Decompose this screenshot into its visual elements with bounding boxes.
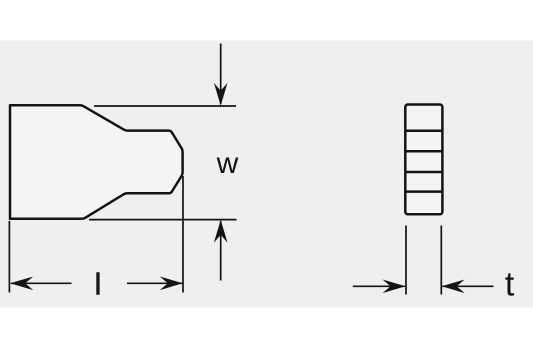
l right extension line	[182, 176, 184, 293]
side-view divider 1	[405, 129, 442, 132]
side-view divider 2	[405, 150, 442, 153]
w top extension line	[94, 105, 236, 107]
w top dimension arrow (down)	[220, 44, 222, 105]
insert top-view outline	[10, 105, 183, 219]
l right dimension arrow (right)	[127, 282, 182, 284]
side-view divider 3	[405, 171, 442, 174]
svg-text:t: t	[505, 266, 515, 304]
svg-text:l: l	[95, 267, 102, 302]
insert side-view	[405, 105, 442, 215]
gray drawing panel	[0, 39, 533, 309]
l left extension line	[8, 221, 10, 293]
svg-text:w: w	[216, 147, 239, 180]
t right dimension arrow (left)	[442, 285, 493, 287]
w bottom dimension arrow (up)	[220, 221, 222, 281]
l left dimension arrow (left)	[11, 282, 72, 284]
side-view divider 4	[405, 190, 442, 193]
t left extension line	[405, 226, 407, 295]
t right extension line	[440, 226, 442, 295]
t left dimension arrow (right)	[353, 285, 405, 287]
w bottom extension line	[89, 219, 237, 221]
